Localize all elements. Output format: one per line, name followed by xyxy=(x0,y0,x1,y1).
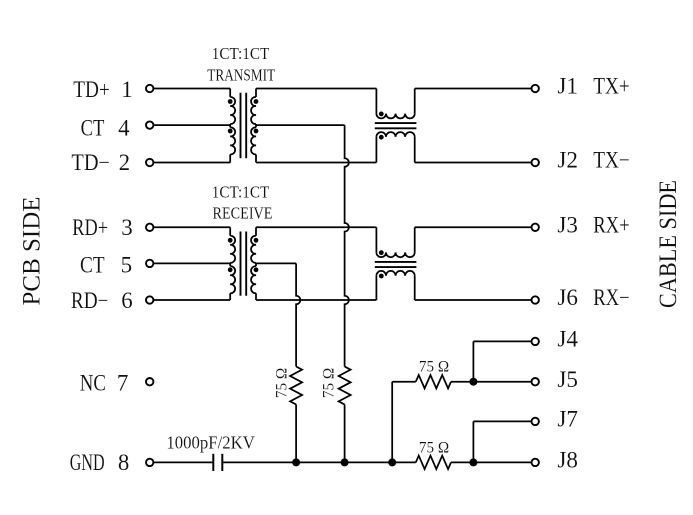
wire resistor R3 to pin J5 xyxy=(451,381,531,383)
svg-text:TX+: TX+ xyxy=(593,74,630,99)
svg-text:J1: J1 xyxy=(557,74,578,99)
wire T1 secondary center tap xyxy=(256,124,345,126)
svg-text:CT: CT xyxy=(81,116,105,141)
svg-text:2: 2 xyxy=(119,150,131,175)
transformer T2 RECEIVE primary winding (left) xyxy=(229,227,231,236)
wire choke to J1 xyxy=(415,88,531,90)
svg-text:J4: J4 xyxy=(557,327,578,352)
svg-text:J2: J2 xyxy=(557,148,578,173)
svg-text:RX+: RX+ xyxy=(593,213,630,238)
pin 5 (CT) terminal circle xyxy=(146,260,153,267)
wire TX center-tap vertical drop (hops over TD-/RD+/RD- wires) to resistor xyxy=(345,125,349,366)
transformer T1 TRANSMIT core lines xyxy=(240,93,242,159)
svg-text:1000pF/2KV: 1000pF/2KV xyxy=(166,432,254,452)
svg-text:TD−: TD− xyxy=(71,150,110,175)
svg-text:RD+: RD+ xyxy=(72,215,108,240)
svg-text:RX−: RX− xyxy=(593,285,630,310)
wire branch up to pin J7 xyxy=(472,421,474,462)
svg-text:J5: J5 xyxy=(557,367,578,392)
svg-text:J6: J6 xyxy=(557,285,578,310)
wire RX center-tap vertical drop (hops over RD- wire) to resistor xyxy=(296,263,300,366)
pin J3 terminal circle xyxy=(532,224,539,231)
choke L1 (TX) bottom winding xyxy=(375,137,377,163)
wire resistor R1 to ground bus xyxy=(295,405,297,463)
svg-text:6: 6 xyxy=(121,288,133,313)
junction J5 line / J4 branch xyxy=(469,378,477,386)
wire choke to J6 xyxy=(415,299,531,301)
pin J5 terminal circle xyxy=(532,378,539,385)
wire T2 secondary center tap xyxy=(256,262,296,264)
wire T2 secondary bottom to choke L2 xyxy=(256,299,376,301)
wire pin RD+ to transformer xyxy=(154,226,230,228)
svg-text:7: 7 xyxy=(117,371,129,396)
transformer T1 TRANSMIT secondary phasing dot (lower) xyxy=(254,129,259,134)
wire T1 secondary top to choke L1 xyxy=(256,88,376,90)
wire resistor R4 to pin J8 xyxy=(451,461,531,463)
svg-text:GND: GND xyxy=(70,450,105,475)
pin J4 terminal circle xyxy=(532,338,539,345)
svg-text:1CT:1CT: 1CT:1CT xyxy=(212,183,270,202)
wire T1 secondary bottom to choke L1 xyxy=(256,162,376,164)
wire pin CT5 to transformer xyxy=(154,262,230,264)
svg-text:75 Ω: 75 Ω xyxy=(320,368,337,398)
svg-text:PCB SIDE: PCB SIDE xyxy=(19,197,46,306)
wire GND pin to capacitor xyxy=(154,461,213,463)
transformer T1 TRANSMIT secondary phasing dot (top) xyxy=(254,99,259,104)
pin 2 (TD−) terminal circle xyxy=(146,159,153,166)
svg-text:J3: J3 xyxy=(557,213,578,238)
transformer T2 RECEIVE primary phasing dot (lower) xyxy=(228,267,233,272)
junction ground bus / J5 feed xyxy=(388,458,396,466)
choke L1 (TX) bottom winding phasing dot xyxy=(379,135,384,140)
svg-text:TD+: TD+ xyxy=(73,77,110,102)
pin J6 terminal circle xyxy=(532,296,539,303)
wire pin RD- to transformer xyxy=(154,299,230,301)
pin 3 (RD+) terminal circle xyxy=(146,224,153,231)
svg-text:1CT:1CT: 1CT:1CT xyxy=(212,44,270,63)
transformer T2 RECEIVE primary phasing dot (top) xyxy=(228,238,233,243)
junction ground bus / RX 75ohm resistor xyxy=(292,458,300,466)
wire T2 secondary top to choke L2 xyxy=(256,226,376,228)
capacitor C1 1000pF/2KV plates xyxy=(212,454,214,471)
pin J8 terminal circle xyxy=(532,459,539,466)
wire branch up to pin J4 xyxy=(472,341,474,381)
svg-text:CABLE SIDE: CABLE SIDE xyxy=(655,180,682,308)
wire choke to J2 xyxy=(415,162,531,164)
wire pin CT4 to transformer xyxy=(154,124,230,126)
wire pin TD- to transformer xyxy=(154,162,230,164)
pin 6 (RD−) terminal circle xyxy=(146,296,153,303)
wire ground bus capacitor to resistor R3 xyxy=(222,461,415,463)
choke L2 (RX) bottom winding xyxy=(375,276,377,300)
svg-text:TRANSMIT: TRANSMIT xyxy=(207,66,275,85)
svg-text:RECEIVE: RECEIVE xyxy=(213,204,273,223)
svg-text:J8: J8 xyxy=(557,448,578,473)
svg-text:CT: CT xyxy=(80,252,105,277)
pin 4 (CT) terminal circle xyxy=(146,121,153,128)
choke L2 (RX) bottom winding phasing dot xyxy=(379,274,384,279)
svg-text:4: 4 xyxy=(118,116,130,141)
svg-text:RD−: RD− xyxy=(71,288,109,313)
wire resistor R2 to ground bus xyxy=(344,405,346,463)
svg-text:J7: J7 xyxy=(557,407,578,432)
pin 8 (GND) terminal circle xyxy=(146,459,153,466)
svg-text:75 Ω: 75 Ω xyxy=(273,368,290,398)
choke L1 (TX) core lines xyxy=(375,122,417,124)
transformer T1 TRANSMIT secondary winding (right) xyxy=(255,89,257,98)
svg-text:8: 8 xyxy=(118,450,130,475)
svg-text:75 Ω: 75 Ω xyxy=(419,359,449,376)
wire pin TD+ to transformer xyxy=(154,88,230,90)
svg-text:TX−: TX− xyxy=(593,148,630,173)
resistor R1 75ohm (RX center tap) xyxy=(290,367,302,405)
pin 1 (TD+) terminal circle xyxy=(146,85,153,92)
choke L2 (RX) top winding xyxy=(375,227,377,252)
choke L1 (TX) top winding phasing dot xyxy=(379,112,384,117)
svg-text:1: 1 xyxy=(121,77,133,102)
svg-text:5: 5 xyxy=(121,252,133,277)
pin J1 terminal circle xyxy=(532,85,539,92)
choke L2 (RX) core lines xyxy=(375,261,417,263)
svg-text:75 Ω: 75 Ω xyxy=(419,440,449,457)
transformer T2 RECEIVE core lines xyxy=(240,232,242,296)
junction ground bus / TX 75ohm resistor xyxy=(341,458,349,466)
choke L1 (TX) top winding xyxy=(375,89,377,114)
resistor R4 75ohm (J7/J8) xyxy=(416,456,451,469)
svg-text:NC: NC xyxy=(80,371,106,396)
junction J8 line / J7 branch xyxy=(469,458,477,466)
transformer T1 TRANSMIT primary winding (left) xyxy=(229,89,231,98)
choke L2 (RX) top winding phasing dot xyxy=(379,250,384,255)
transformer T1 TRANSMIT primary phasing dot (lower) xyxy=(228,129,233,134)
transformer T1 TRANSMIT primary phasing dot (top) xyxy=(228,99,233,104)
wire choke to J3 xyxy=(415,226,531,228)
transformer T2 RECEIVE secondary phasing dot (top) xyxy=(254,238,259,243)
resistor R3 75ohm (J4/J5) xyxy=(416,375,451,388)
wire ground bus to J5 resistor riser xyxy=(391,382,393,463)
svg-text:3: 3 xyxy=(121,215,133,240)
transformer T2 RECEIVE secondary winding (right) xyxy=(255,227,257,236)
pin J2 terminal circle xyxy=(532,159,539,166)
resistor R2 75ohm (TX center tap) xyxy=(339,367,351,405)
pin 7 (NC) terminal circle xyxy=(146,378,153,385)
transformer T2 RECEIVE secondary phasing dot (lower) xyxy=(254,267,259,272)
pin J7 terminal circle xyxy=(532,418,539,425)
